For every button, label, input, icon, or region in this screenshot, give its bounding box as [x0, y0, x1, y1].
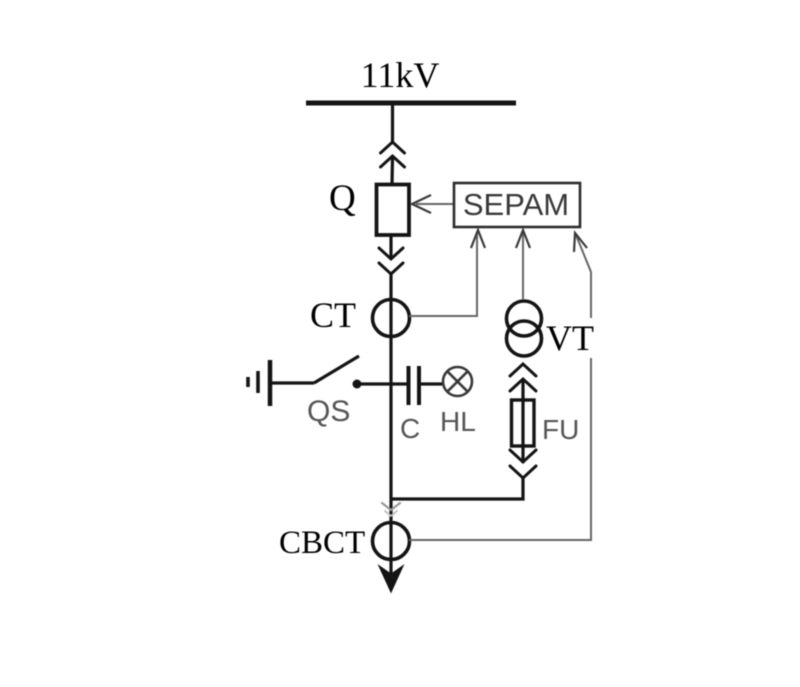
arrowhead CBCT wire into SEPAM (open, pointing up-left) [574, 233, 587, 252]
arrowhead CT wire into SEPAM (open, pointing up) [471, 230, 485, 248]
wire QS dot to capacitor C [357, 382, 407, 385]
busbar 11kV [306, 101, 516, 106]
drawout contact chevrons below Q (pointing down) [379, 248, 403, 274]
wire Q to lower drawout contact [389, 235, 392, 259]
svg-text:VT: VT [546, 318, 594, 358]
arrowhead VT wire into SEPAM (open, pointing up) [516, 230, 530, 248]
voltage transformer VT (two windings) [507, 301, 542, 336]
indicator lamp HL [443, 367, 472, 396]
svg-text:11kV: 11kV [361, 55, 440, 95]
label VT (covers line behind) [545, 321, 597, 353]
svg-text:HL: HL [440, 406, 476, 437]
wire CBCT to outgoing feeder arrow [389, 522, 392, 575]
wire CBCT secondary to SEPAM (right riser) [409, 358, 591, 540]
wire busbar to upper drawout contact [391, 105, 394, 142]
wire ground to earthing switch QS [272, 381, 314, 384]
circuit breaker Q [377, 185, 410, 236]
svg-text:CT: CT [310, 295, 356, 335]
wire lower contact to Q [390, 156, 394, 185]
QS fixed contact junction dot [353, 380, 362, 389]
wire riser above VT label gap [576, 235, 591, 318]
svg-text:C: C [400, 413, 420, 444]
fuse FU [512, 400, 535, 446]
svg-text:FU: FU [542, 414, 579, 445]
core balance transformer CBCT [373, 523, 410, 560]
svg-text:Q: Q [329, 178, 356, 219]
drawout contact chevrons below VT (pointing up) [510, 364, 536, 391]
svg-text:QS: QS [307, 395, 350, 428]
svg-text:SEPAM: SEPAM [463, 187, 569, 222]
current transformer CT [373, 300, 410, 337]
wire SEPAM trip output to Q [416, 203, 453, 205]
capacitor C plates [407, 366, 411, 405]
faint chevron marks at CBCT junction [382, 503, 400, 516]
earthing switch QS blade (open) [314, 356, 359, 383]
outgoing feeder arrowhead (solid) [378, 564, 405, 594]
ground symbol (earth) [248, 360, 270, 406]
svg-text:CBCT: CBCT [279, 525, 365, 561]
drawout contact chevrons below FU (pointing down) [510, 450, 536, 478]
SEPAM relay box U1 [454, 183, 580, 227]
arrowhead into Q (open, pointing left) [412, 195, 431, 213]
wire capacitor to lamp HL [420, 382, 443, 385]
wire CT secondary to SEPAM [409, 233, 477, 316]
wire VT contact through fuse FU [521, 379, 524, 463]
wire VT secondary to SEPAM [522, 233, 524, 299]
wire lower contact through CT down to CBCT junction [389, 274, 392, 522]
wire FU branch elbow to main line [391, 478, 523, 499]
drawout contact chevrons above Q (pointing up) [381, 142, 405, 167]
